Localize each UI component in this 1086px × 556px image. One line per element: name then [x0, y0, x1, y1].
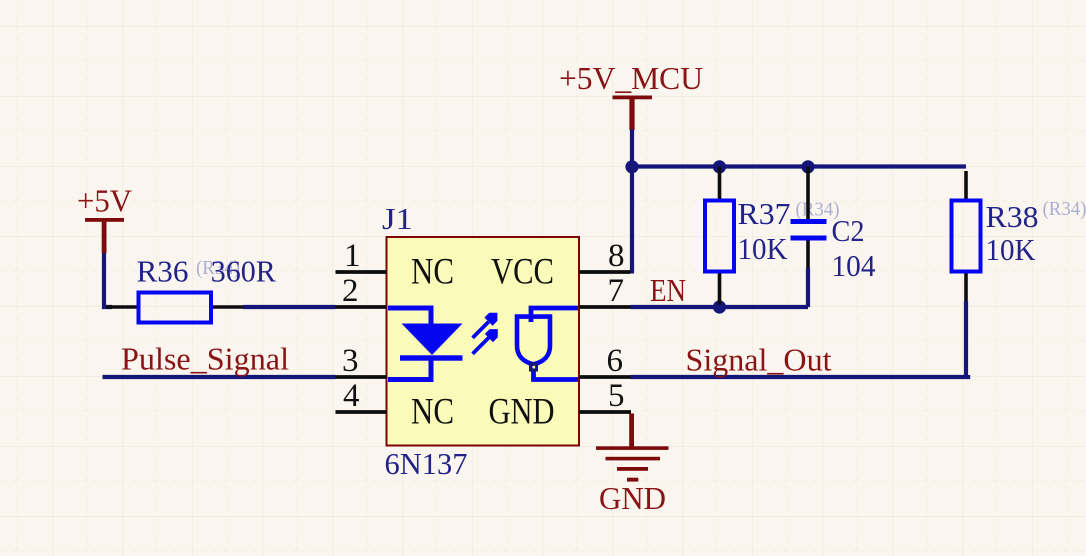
photodetector inside J1 [517, 308, 578, 380]
svg-text:EN: EN [650, 272, 686, 308]
svg-text:8: 8 [608, 238, 625, 274]
svg-text:R38: R38 [986, 199, 1039, 234]
wire R38 bottom to Signal_Out net [964, 301, 968, 377]
resistor R36 pin 2 (right) [211, 305, 243, 309]
capacitor C2 plates [791, 219, 827, 241]
pin 5 (GND) [489, 378, 632, 432]
svg-text:GND: GND [599, 480, 666, 516]
capacitor C2 pin 2 (bottom) [806, 241, 810, 269]
svg-text:5: 5 [608, 378, 625, 414]
power port +5V_MCU [559, 60, 703, 130]
pin 3 (cathode) [336, 343, 387, 379]
junction at R37 / bus [713, 160, 726, 173]
wire R36 to pin 2 [243, 305, 336, 309]
svg-text:R36: R36 [137, 254, 189, 289]
wire Pulse_Signal net to pin 3 [103, 375, 336, 379]
resistor R36 pin 1 (left) [106, 305, 139, 309]
resistor R36 body [139, 293, 212, 323]
power port +5V [77, 183, 132, 254]
svg-text:2: 2 [342, 273, 359, 309]
svg-text:104: 104 [832, 248, 876, 283]
light arrow 1 [473, 313, 498, 338]
svg-text:+5V_MCU: +5V_MCU [559, 60, 703, 96]
svg-text:4: 4 [343, 378, 360, 414]
svg-text:VCC: VCC [491, 250, 554, 291]
resistor R38 pin 2 (bottom) [964, 272, 968, 302]
wire Signal_Out net (pin 6 to R38) [631, 375, 969, 377]
svg-text:10K: 10K [738, 231, 789, 266]
resistor R37 pin 1 (top) [718, 167, 722, 201]
svg-text:Pulse_Signal: Pulse_Signal [121, 340, 289, 376]
ground symbol GND [596, 414, 669, 482]
svg-text:NC: NC [411, 250, 454, 291]
light arrow 2 [473, 329, 498, 354]
wire bus +5V_MCU rail [630, 164, 966, 168]
pin 8 (VCC) [491, 238, 631, 291]
svg-text:3: 3 [342, 343, 359, 379]
LED symbol inside J1 [388, 308, 463, 380]
resistor R38 pin 1 (top) [964, 171, 968, 201]
svg-text:Signal_Out: Signal_Out [686, 342, 832, 378]
wire C2 to EN net [806, 268, 808, 305]
svg-text:J1: J1 [382, 201, 413, 236]
junction at C2 / bus [801, 160, 814, 173]
svg-text:C2: C2 [832, 213, 865, 248]
svg-text:6N137: 6N137 [385, 446, 468, 481]
pin 1 (NC) [336, 238, 455, 291]
svg-text:+5V: +5V [77, 183, 132, 219]
svg-text:10K: 10K [986, 232, 1037, 267]
svg-text:7: 7 [608, 273, 625, 309]
wire +5V to R36 [104, 253, 112, 307]
svg-text:1: 1 [344, 238, 361, 274]
junction at power stem / bus [625, 160, 638, 173]
resistor R38 body [952, 201, 981, 272]
wire EN net (pin 7 to C2) [631, 305, 809, 309]
svg-text:6: 6 [607, 343, 624, 379]
svg-text:R37: R37 [738, 196, 791, 231]
pin 7 (EN) [579, 273, 631, 309]
wire +5V_MCU stem to bus to pin 8 [630, 130, 634, 274]
svg-text:NC: NC [411, 391, 454, 432]
svg-text:360R: 360R [211, 254, 276, 289]
capacitor C2 pin 1 (top) [806, 167, 810, 220]
resistor R37 body [705, 201, 734, 272]
junction at R37 / EN wire [713, 300, 726, 313]
svg-text:GND: GND [489, 391, 555, 432]
svg-text:(R34): (R34) [1043, 199, 1086, 220]
pin 2 (anode) [336, 273, 387, 309]
component J1 body (6N137) [387, 237, 580, 446]
resistor R37 pin 2 (bottom) [718, 272, 722, 308]
pin 6 (VO) [579, 343, 631, 379]
pin 4 (NC) [336, 378, 455, 432]
